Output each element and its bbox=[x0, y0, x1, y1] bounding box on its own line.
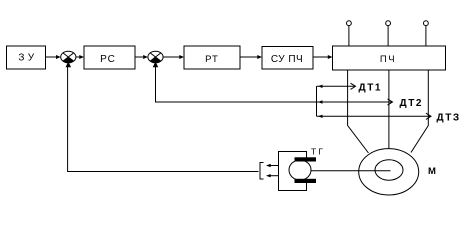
tacho lead arrow top bbox=[266, 164, 279, 167]
sensor bus bracket bbox=[316, 86, 318, 116]
svg-text:ДТ2: ДТ2 bbox=[400, 98, 424, 109]
phase wire 1 (PCh to motor) bbox=[348, 70, 369, 153]
svg-text:ПЧ: ПЧ bbox=[380, 54, 396, 65]
speed feedback wire (junction 1 down and right to tacho) bbox=[68, 67, 259, 172]
summing junction 1 bbox=[61, 51, 76, 67]
supply terminal 2 bbox=[386, 21, 391, 46]
block RS bbox=[84, 46, 135, 69]
block SU PCh bbox=[262, 47, 313, 70]
svg-text:РС: РС bbox=[100, 54, 116, 65]
wire ZU to summing junction 1 bbox=[46, 55, 61, 59]
svg-text:М: М bbox=[428, 166, 436, 177]
phase wire 3 (PCh to motor) bbox=[411, 70, 428, 153]
shaft wire TG to motor bbox=[311, 170, 391, 172]
block ZU bbox=[7, 46, 46, 69]
block RT bbox=[184, 46, 240, 69]
block PCh bbox=[333, 46, 446, 70]
summing junction 2 bbox=[148, 51, 163, 67]
svg-text:ДТ1: ДТ1 bbox=[359, 82, 383, 93]
current sensor DT2 bbox=[317, 98, 424, 109]
motor M bbox=[359, 149, 436, 195]
current sensor DT3 bbox=[317, 112, 461, 123]
svg-text:ЗУ: ЗУ bbox=[18, 53, 37, 64]
wire RS to summing junction 2 bbox=[135, 55, 148, 59]
svg-text:ДТЗ: ДТЗ bbox=[437, 112, 461, 123]
wire junction 1 to RS bbox=[76, 55, 84, 59]
current feedback wire (junction 2 down and right to sensor bus) bbox=[156, 67, 317, 102]
phase wire 2 (PCh to motor) bbox=[388, 70, 390, 149]
wire SU PCh to PCh bbox=[313, 55, 333, 59]
tacho brush leads bracket bbox=[279, 152, 307, 191]
supply terminal 3 bbox=[424, 21, 429, 46]
svg-text:ТГ: ТГ bbox=[311, 146, 325, 156]
wire junction 2 to RT bbox=[163, 55, 184, 59]
tachogenerator TG bbox=[289, 146, 325, 183]
current sensor DT1 bbox=[317, 82, 383, 93]
supply terminal 1 bbox=[347, 21, 352, 46]
tacho output bracket bbox=[260, 163, 264, 180]
wire RT to SU PCh bbox=[240, 55, 262, 59]
tacho lead arrow bottom bbox=[266, 174, 279, 177]
svg-text:СУ ПЧ: СУ ПЧ bbox=[271, 54, 303, 65]
svg-text:РТ: РТ bbox=[205, 54, 219, 65]
